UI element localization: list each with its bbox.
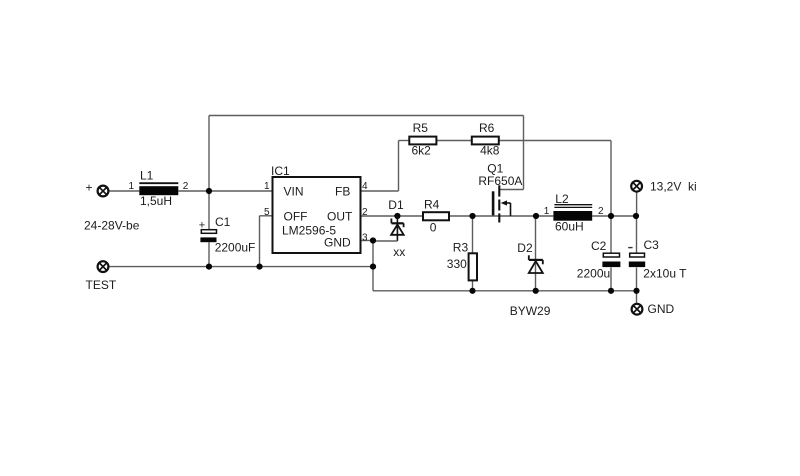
terminal input [98, 186, 109, 197]
svg-text:L2: L2 [555, 192, 569, 206]
wire gate feed vertical [523, 116, 525, 190]
wire R3 bottom lead [472, 280, 474, 290]
wire R4 to L2 rail [449, 215, 553, 217]
capacitor C3 [629, 253, 645, 267]
svg-text:xx: xx [393, 245, 405, 259]
resistor R6 [472, 137, 499, 145]
resistor R4 [423, 212, 449, 220]
wire R5 to R6 [436, 140, 471, 142]
wire vertical riser to top rail [208, 116, 210, 192]
node junction D1/pin2 rail [394, 213, 400, 219]
wire D2 top lead [535, 216, 537, 291]
node junction L2/C2/feedback [608, 213, 614, 219]
svg-text:330: 330 [447, 257, 467, 271]
svg-text:13,2V ki: 13,2V ki [650, 179, 697, 193]
svg-text:2: 2 [598, 206, 604, 217]
wire IC1 pin 5 vertical [259, 216, 261, 267]
node junction C3/bottom rail [633, 288, 639, 294]
wire output terminal lead [636, 192, 638, 216]
wire IC1 pin 5 horizontal [260, 215, 273, 217]
wire TEST rail [109, 266, 374, 268]
svg-text:2200uF: 2200uF [215, 240, 256, 254]
svg-text:L1: L1 [140, 169, 154, 183]
node junction pin3 [370, 237, 376, 243]
diode D1 zener [391, 216, 404, 241]
svg-text:IC1: IC1 [271, 164, 290, 178]
svg-text:C3: C3 [644, 238, 660, 252]
svg-text:60uH: 60uH [555, 219, 584, 233]
wire C1 top lead [208, 191, 210, 230]
capacitor C2 [602, 253, 620, 267]
op-amp IC1 box [273, 177, 361, 253]
svg-text:1,5uH: 1,5uH [140, 194, 172, 208]
wire L2 to output node [592, 215, 636, 217]
node junction pin3 riser/TEST rail [370, 264, 376, 270]
wire GND terminal lead [636, 291, 638, 304]
node junction D2/bottom rail [533, 288, 539, 294]
wire R3 top lead [472, 216, 474, 253]
svg-text:GND: GND [648, 302, 675, 316]
svg-text:5: 5 [264, 207, 270, 218]
svg-text:24-28V-be: 24-28V-be [84, 218, 140, 232]
resistor R5 [409, 137, 436, 145]
wire R6 to output riser [499, 140, 611, 142]
wire top rail [209, 115, 524, 117]
wire bottom rail [373, 290, 637, 292]
node junction R3/bottom rail [469, 288, 475, 294]
svg-text:GND: GND [324, 235, 351, 249]
node junction C2/bottom rail [608, 288, 614, 294]
svg-text:OUT: OUT [327, 210, 353, 224]
wire IC1 pin 2 to R4 [361, 215, 424, 217]
wire C3 bottom lead [636, 268, 638, 291]
svg-text:1: 1 [129, 181, 135, 192]
node junction L1/C1 [206, 188, 212, 194]
wire IC1 pin 3 [361, 240, 374, 242]
svg-text:TEST: TEST [86, 278, 117, 292]
capacitor C1 [200, 230, 216, 243]
wire L1 to IC1 pin 1 [178, 190, 272, 192]
wire C3 top lead [636, 216, 638, 253]
svg-text:2200u: 2200u [577, 266, 610, 280]
node junction pin5 riser/TEST rail [256, 264, 262, 270]
capacitor C3 minus sign [628, 247, 632, 249]
inductor L1 [139, 183, 178, 195]
wire gate feed horizontal [499, 189, 523, 191]
node junction R4/R3/Q1 [469, 213, 475, 219]
svg-text:4k8: 4k8 [480, 144, 500, 158]
svg-text:D2: D2 [517, 241, 533, 255]
svg-text:C1: C1 [215, 215, 231, 229]
resistor R3 [469, 253, 477, 280]
svg-text:3: 3 [362, 233, 368, 244]
svg-text:2x10u T: 2x10u T [643, 266, 687, 280]
svg-text:0: 0 [430, 220, 437, 234]
terminal GND [632, 304, 643, 315]
svg-text:2: 2 [362, 207, 368, 218]
svg-text:1: 1 [264, 181, 270, 192]
wire input terminal to L1 [109, 190, 140, 192]
wire feedback riser down to output node [610, 141, 612, 217]
inductor L2 [553, 205, 592, 221]
wire feedback row to R5 [399, 140, 410, 142]
svg-text:BYW29: BYW29 [510, 304, 551, 318]
wire D1 anode to pin3 junction [373, 240, 397, 242]
wire IC1 pin 4 horizontal [361, 190, 399, 192]
svg-text:D1: D1 [388, 198, 404, 212]
svg-text:4: 4 [362, 181, 368, 192]
svg-text:FB: FB [335, 185, 350, 199]
svg-text:6k2: 6k2 [412, 144, 432, 158]
terminal TEST [98, 261, 109, 272]
svg-text:R4: R4 [424, 197, 440, 211]
wire feedback vertical to R5 [398, 141, 400, 192]
svg-text:+: + [86, 180, 93, 194]
svg-text:1: 1 [544, 206, 550, 217]
node junction output terminal/C3 [633, 213, 639, 219]
wire pin 3 vertical to bottom rail [372, 241, 374, 291]
svg-text:RF650A: RF650A [478, 174, 522, 188]
svg-text:R3: R3 [453, 240, 469, 254]
node junction Q1/L2 [533, 213, 539, 219]
svg-text:R6: R6 [479, 121, 495, 135]
wire C2 bottom lead [610, 268, 612, 291]
svg-text:C2: C2 [591, 239, 607, 253]
wire C2 top lead [610, 216, 612, 253]
node junction C1/TEST rail [206, 264, 212, 270]
svg-text:R5: R5 [413, 121, 429, 135]
diode D2 zener [529, 255, 543, 273]
svg-text:VIN: VIN [284, 185, 304, 199]
terminal output [631, 181, 642, 192]
transistor Q1 [493, 185, 510, 222]
wire C1 bottom lead [208, 242, 210, 266]
svg-text:2: 2 [183, 181, 189, 192]
svg-text:OFF: OFF [284, 210, 308, 224]
